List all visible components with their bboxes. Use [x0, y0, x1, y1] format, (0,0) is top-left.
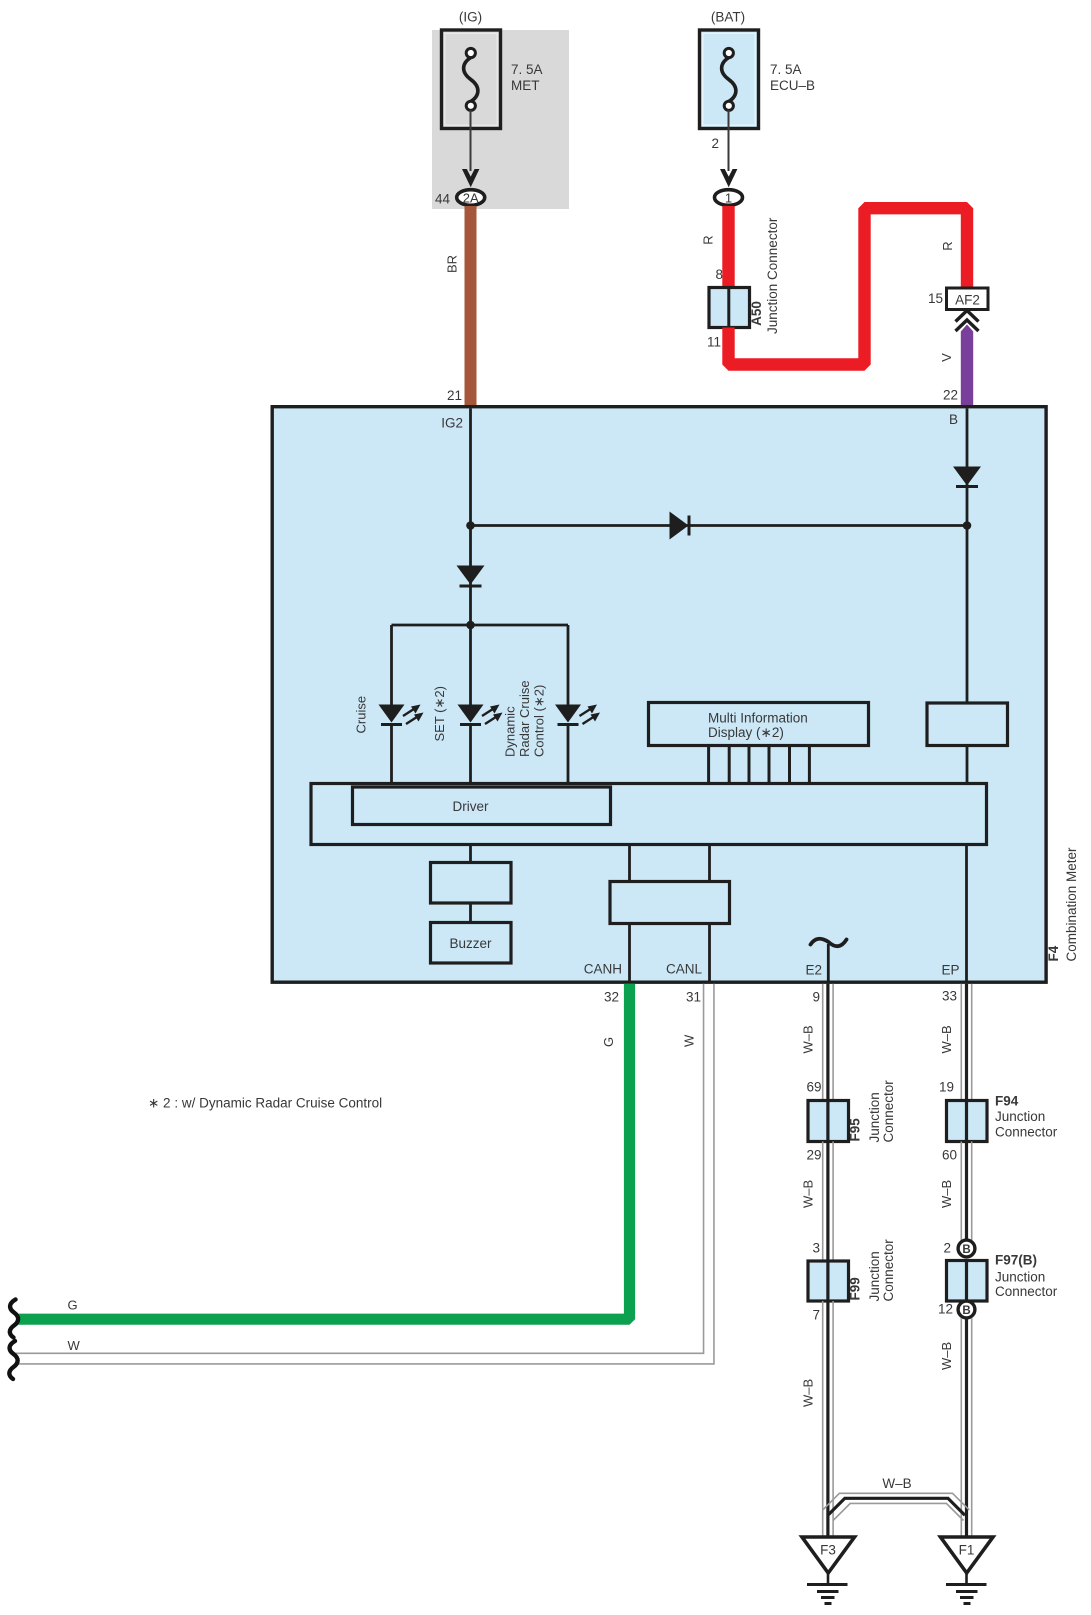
wire CANL drop: [708, 845, 711, 882]
svg-text:Junction: Junction: [867, 1092, 882, 1142]
label Junction Connector (F95): [867, 1080, 896, 1143]
wire BR (brown): [465, 206, 477, 407]
svg-text:R: R: [701, 235, 716, 244]
svg-text:Buzzer: Buzzer: [449, 936, 492, 951]
LED Cruise: [379, 705, 424, 725]
svg-text:BR: BR: [445, 255, 460, 273]
svg-text:Display (∗2): Display (∗2): [708, 725, 784, 740]
wire fuse to connector 2A: [470, 110, 472, 171]
svg-text:19: 19: [939, 1080, 954, 1095]
diode D2 (down, on B line): [953, 467, 981, 487]
wire W-B (EP) segment 3: [961, 1318, 971, 1537]
svg-text:29: 29: [806, 1148, 821, 1163]
svg-text:44: 44: [435, 192, 451, 207]
svg-text:31: 31: [686, 990, 701, 1005]
connector AF2 box: [947, 288, 989, 310]
svg-text:2A: 2A: [463, 191, 479, 206]
connector 2A oval: [457, 190, 485, 206]
svg-text:W–B: W–B: [939, 1342, 954, 1370]
svg-text:2: 2: [711, 136, 719, 151]
svg-text:Combination Meter: Combination Meter: [1064, 847, 1079, 962]
svg-text:33: 33: [942, 989, 957, 1004]
gray background block: [432, 30, 569, 209]
svg-text:W–B: W–B: [939, 1180, 954, 1208]
fuse MET box: [442, 30, 501, 129]
svg-text:F94: F94: [995, 1094, 1019, 1109]
svg-text:G: G: [68, 1298, 78, 1313]
svg-text:2: 2: [943, 1241, 951, 1256]
connector 1 oval: [715, 190, 743, 206]
svg-text:W–B: W–B: [882, 1476, 911, 1491]
wire W-B (EP) segment 1: [961, 984, 971, 1101]
svg-text:V: V: [939, 353, 954, 362]
combination meter box F4: [272, 407, 1046, 983]
svg-text:(IG): (IG): [459, 10, 482, 25]
svg-text:B: B: [949, 412, 958, 427]
node junction dot LED bus: [466, 621, 475, 630]
connector circle B (top): [958, 1240, 975, 1257]
ground F1: [941, 1537, 994, 1604]
svg-text:E2: E2: [805, 963, 822, 978]
Driver box: [353, 787, 611, 825]
svg-text:Junction: Junction: [995, 1109, 1045, 1124]
wire B to driver block: [966, 746, 969, 785]
svg-text:7. 5A: 7. 5A: [770, 62, 802, 77]
wire G green: [16, 984, 630, 1319]
svg-text:Junction Connector: Junction Connector: [765, 217, 780, 334]
label Junction Connector (F99): [867, 1239, 896, 1302]
wire EP to edge: [965, 845, 968, 983]
svg-text:R: R: [940, 241, 955, 250]
junction connector A50: [709, 288, 750, 328]
svg-text:W: W: [68, 1338, 81, 1353]
junction connector F97(B): [947, 1261, 988, 1302]
svg-text:AF2: AF2: [955, 293, 980, 308]
wire R red loop: A50 to AF2: [729, 208, 968, 364]
label Dynamic Radar Cruise Control (*2): [503, 680, 547, 757]
svg-text:32: 32: [604, 990, 619, 1005]
svg-text:CANH: CANH: [584, 962, 622, 977]
wire W-B (E2) segment 1: [823, 984, 833, 1101]
svg-text:∗ 2 : w/ Dynamic Radar Cruise: ∗ 2 : w/ Dynamic Radar Cruise Control: [148, 1096, 382, 1111]
wire LED2 to driver: [469, 725, 472, 785]
svg-text:EP: EP: [941, 963, 959, 978]
LED SET: [458, 705, 503, 725]
wire driver to box below: [469, 845, 472, 864]
svg-text:W: W: [682, 1034, 697, 1047]
LED Dynamic Radar Cruise Control: [555, 705, 600, 725]
wire R red: connector 1 to A50: [722, 206, 734, 288]
junction connector F95: [808, 1101, 849, 1142]
fuse ECU-B box: [700, 30, 759, 129]
wire B vertical: [966, 409, 969, 704]
svg-text:(BAT): (BAT): [711, 10, 745, 25]
svg-text:8: 8: [715, 267, 723, 282]
svg-text:Dynamic: Dynamic: [503, 706, 518, 757]
svg-text:Connector: Connector: [995, 1284, 1058, 1299]
svg-text:W–B: W–B: [801, 1379, 816, 1407]
wire CANH to edge: [628, 924, 631, 983]
wire LED3 drop: [567, 625, 570, 705]
svg-text:W–B: W–B: [939, 1025, 954, 1053]
svg-text:W–B: W–B: [801, 1180, 816, 1208]
connector circle B (bottom): [958, 1301, 975, 1318]
svg-text:12: 12: [938, 1302, 953, 1317]
wire horizontal IG2-B link: [471, 524, 968, 527]
svg-text:60: 60: [942, 1148, 957, 1163]
svg-text:Connector: Connector: [881, 1080, 896, 1143]
CAN box: [610, 882, 730, 924]
wire box to buzzer: [469, 903, 472, 923]
svg-text:F3: F3: [820, 1543, 836, 1558]
label F94 Junction Connector: [995, 1094, 1058, 1140]
svg-text:IG2: IG2: [441, 416, 463, 431]
svg-text:F4: F4: [1046, 945, 1061, 961]
svg-text:F1: F1: [959, 1543, 975, 1558]
fuse element symbol: [722, 48, 736, 110]
junction connector F99: [808, 1261, 849, 1301]
svg-text:F99: F99: [848, 1277, 863, 1300]
svg-text:SET (∗2): SET (∗2): [432, 686, 447, 741]
LED bus wire: [392, 624, 569, 627]
wire IG2 vertical: [469, 409, 472, 626]
svg-text:Control (∗2): Control (∗2): [532, 685, 547, 757]
Multi Information Display box: [649, 703, 869, 746]
svg-text:7: 7: [812, 1308, 820, 1323]
svg-text:Driver: Driver: [453, 799, 490, 814]
unlabeled box above buzzer: [431, 863, 512, 904]
svg-text:22: 22: [943, 388, 958, 403]
internal ground squiggle (E2): [811, 939, 847, 946]
svg-text:B: B: [962, 1305, 970, 1317]
svg-text:Junction: Junction: [867, 1251, 882, 1301]
junction connector F94: [947, 1101, 988, 1142]
wire CANL to edge: [708, 924, 711, 983]
diode D3 (down, on IG2 line): [457, 566, 485, 587]
svg-text:CANL: CANL: [666, 962, 703, 977]
svg-text:ECU–B: ECU–B: [770, 78, 815, 93]
driver outer block: [311, 784, 987, 845]
label F97(B) Junction Connector: [995, 1253, 1058, 1300]
diode D1 (right-pointing, on link): [670, 512, 690, 540]
wire W-B (E2) segment 2: [823, 1142, 833, 1262]
fuse element symbol: [464, 48, 478, 110]
continuation squiggle W: [9, 1341, 17, 1379]
svg-text:Cruise: Cruise: [354, 696, 369, 734]
svg-text:Multi Information: Multi Information: [708, 711, 808, 726]
buzzer box: [431, 923, 512, 964]
wire W-B (E2) segment 3: [823, 1301, 833, 1537]
unlabeled box on B line: [927, 703, 1008, 746]
svg-text:7. 5A: 7. 5A: [511, 62, 543, 77]
wire W white (CANL) outline: [15, 984, 714, 1364]
wire W-B bridge: [823, 1493, 970, 1520]
svg-text:MET: MET: [511, 78, 540, 93]
node junction dot right: [963, 521, 972, 530]
svg-text:W–B: W–B: [801, 1025, 816, 1053]
shield chevrons below AF2: [956, 311, 979, 332]
ground F3: [802, 1537, 855, 1604]
wire LED3 to driver: [567, 725, 570, 785]
wire LED1 drop: [390, 625, 393, 705]
svg-text:3: 3: [812, 1241, 820, 1256]
wire E2 to edge: [827, 944, 830, 982]
continuation squiggle G: [10, 1300, 18, 1338]
wire V purple: AF2 to meter pin 22: [961, 325, 973, 407]
svg-text:B: B: [962, 1244, 970, 1256]
svg-text:1: 1: [725, 191, 732, 206]
wire CANH drop: [628, 845, 631, 882]
svg-text:F97(B): F97(B): [995, 1253, 1037, 1268]
wire fuse to connector 1: [728, 110, 730, 171]
svg-text:F95: F95: [848, 1118, 863, 1142]
arrow into connector 2A: [462, 169, 479, 187]
svg-text:9: 9: [812, 990, 820, 1005]
svg-text:Connector: Connector: [881, 1239, 896, 1302]
node junction dot left: [466, 521, 475, 530]
svg-text:15: 15: [928, 291, 943, 306]
svg-text:Connector: Connector: [995, 1125, 1058, 1140]
svg-text:69: 69: [806, 1080, 821, 1095]
arrow into connector 1: [720, 169, 737, 187]
wire LED2 drop: [469, 625, 472, 705]
wire W-B (EP) segment 2: [961, 1142, 971, 1241]
svg-text:11: 11: [707, 335, 721, 350]
svg-text:A50: A50: [749, 301, 764, 326]
svg-text:21: 21: [447, 388, 462, 403]
wire LED1 to driver: [390, 725, 393, 785]
MID comb wires: [709, 746, 810, 785]
svg-text:Radar Cruise: Radar Cruise: [517, 680, 532, 757]
svg-text:Junction: Junction: [995, 1270, 1045, 1285]
svg-text:G: G: [601, 1037, 616, 1047]
